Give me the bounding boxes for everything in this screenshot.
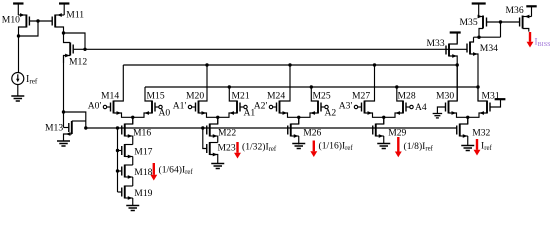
svg-text:M30: M30 xyxy=(436,90,454,101)
svg-text:A4: A4 xyxy=(415,102,427,113)
svg-text:A3': A3' xyxy=(339,101,353,112)
svg-text:M36: M36 xyxy=(506,5,524,16)
svg-text:M25: M25 xyxy=(313,90,331,101)
svg-text:M11: M11 xyxy=(66,9,84,20)
svg-text:M35: M35 xyxy=(460,17,478,28)
svg-text:M12: M12 xyxy=(69,57,87,68)
svg-text:M13: M13 xyxy=(45,123,63,134)
svg-text:M15: M15 xyxy=(147,90,165,101)
svg-text:M32: M32 xyxy=(472,128,490,139)
svg-text:M10: M10 xyxy=(2,15,20,26)
svg-text:M17: M17 xyxy=(134,147,152,158)
svg-text:M33: M33 xyxy=(427,38,445,49)
svg-text:M16: M16 xyxy=(133,128,151,139)
svg-text:M20: M20 xyxy=(186,90,204,101)
svg-text:M22: M22 xyxy=(218,128,236,139)
svg-text:M31: M31 xyxy=(482,90,500,101)
svg-text:A2': A2' xyxy=(254,101,268,112)
svg-text:M28: M28 xyxy=(398,90,416,101)
svg-text:M18: M18 xyxy=(134,167,152,178)
svg-text:M27: M27 xyxy=(352,90,370,101)
svg-text:A0': A0' xyxy=(88,101,102,112)
svg-text:M29: M29 xyxy=(388,128,406,139)
svg-text:A2: A2 xyxy=(325,108,337,119)
svg-text:M34: M34 xyxy=(480,43,498,54)
svg-text:M19: M19 xyxy=(134,188,152,199)
svg-text:A1': A1' xyxy=(173,101,187,112)
svg-text:M14: M14 xyxy=(101,90,119,101)
svg-text:A0: A0 xyxy=(159,108,171,119)
svg-text:M26: M26 xyxy=(303,128,321,139)
svg-text:M23: M23 xyxy=(218,143,236,154)
svg-text:M24: M24 xyxy=(267,90,285,101)
svg-text:M21: M21 xyxy=(232,90,250,101)
